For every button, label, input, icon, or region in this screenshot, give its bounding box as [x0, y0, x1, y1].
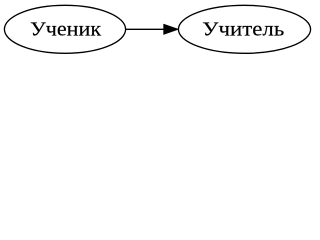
svg-text:Учитель: Учитель: [202, 19, 284, 41]
svg-text:Ученик: Ученик: [30, 19, 101, 41]
